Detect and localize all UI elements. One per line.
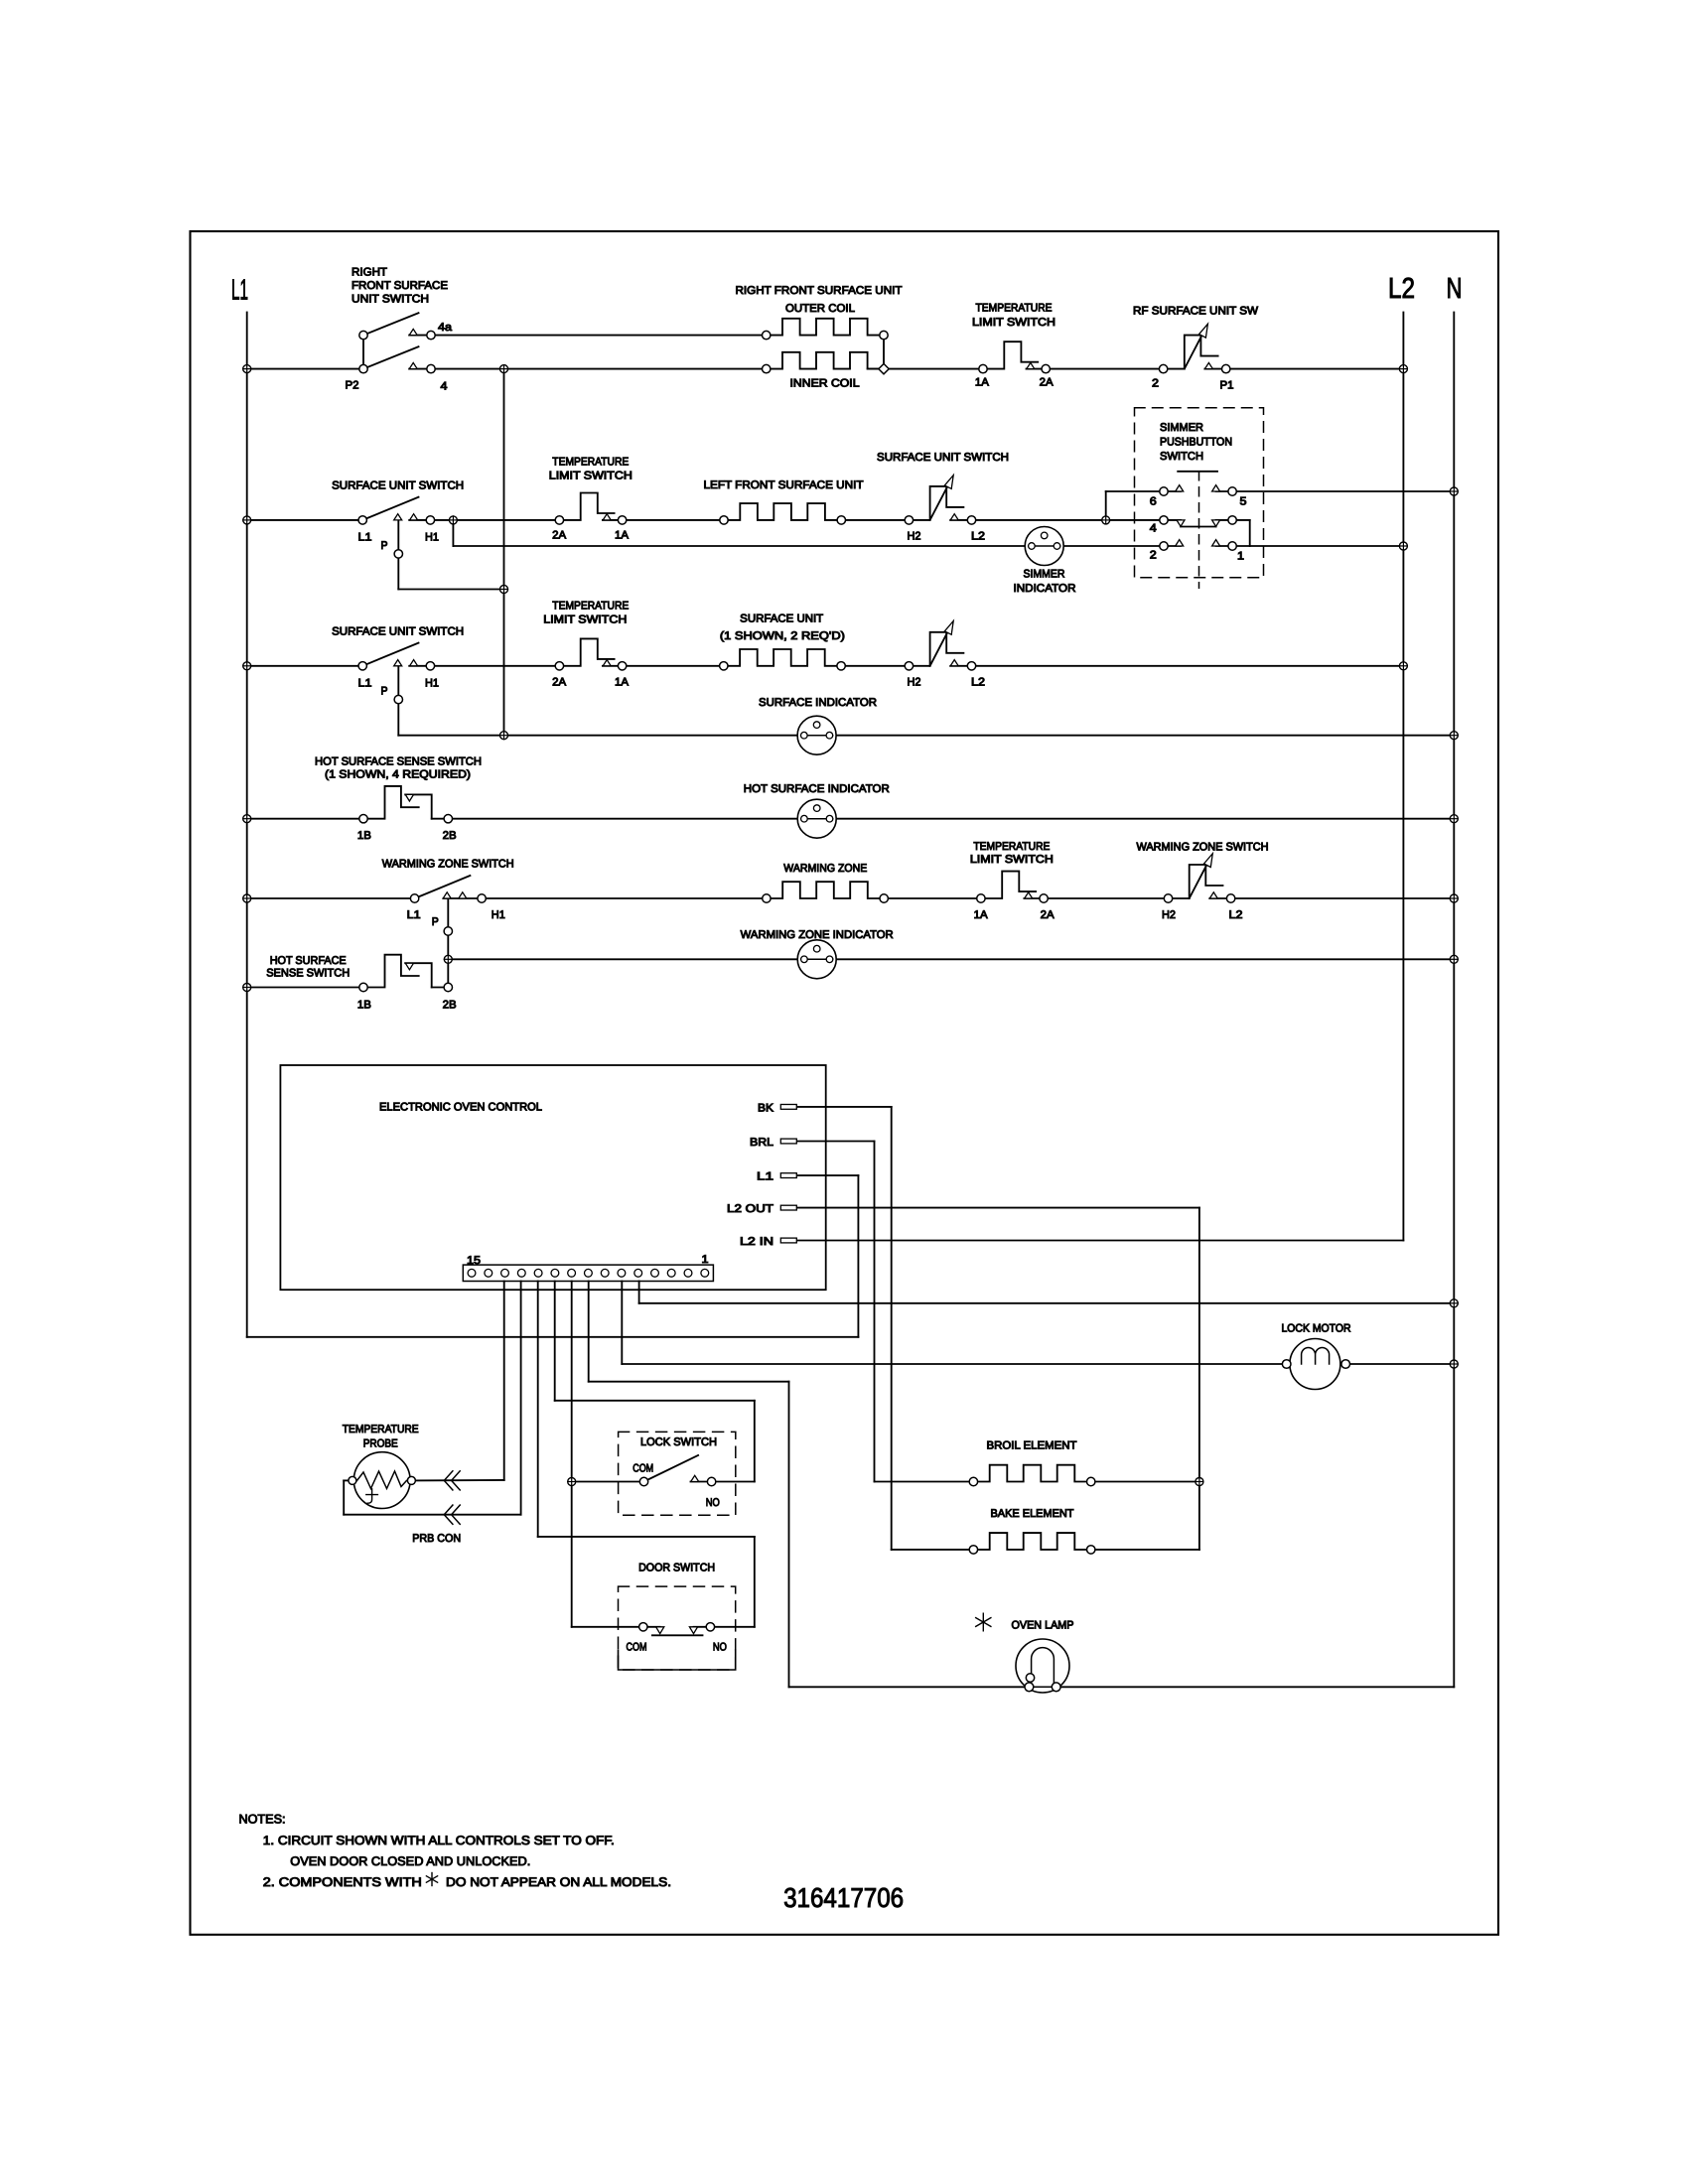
svg-text:P1: P1: [1220, 380, 1234, 392]
svg-text:1: 1: [702, 1254, 709, 1266]
svg-text:1A: 1A: [974, 909, 989, 921]
svg-text:H2: H2: [1162, 909, 1176, 921]
svg-text:L2 OUT: L2 OUT: [727, 1203, 774, 1215]
svg-text:BRL: BRL: [750, 1137, 774, 1149]
svg-text:NO: NO: [706, 1497, 720, 1509]
svg-text:LOCK SWITCH: LOCK SWITCH: [640, 1436, 717, 1448]
svg-text:LIMIT SWITCH: LIMIT SWITCH: [972, 317, 1055, 329]
svg-text:SURFACE UNIT: SURFACE UNIT: [740, 613, 823, 624]
svg-text:HOT SURFACE INDICATOR: HOT SURFACE INDICATOR: [744, 783, 890, 795]
svg-text:H2: H2: [908, 531, 921, 543]
svg-text:INNER COIL: INNER COIL: [790, 378, 860, 390]
svg-text:LEFT FRONT SURFACE UNIT: LEFT FRONT SURFACE UNIT: [704, 479, 864, 491]
svg-text:WARMING ZONE SWITCH: WARMING ZONE SWITCH: [1137, 841, 1269, 853]
svg-text:TEMPERATURE: TEMPERATURE: [976, 303, 1053, 315]
svg-text:HOT SURFACE: HOT SURFACE: [270, 955, 347, 967]
svg-text:4: 4: [441, 381, 448, 393]
svg-text:SIMMER: SIMMER: [1160, 422, 1203, 434]
svg-text:1A: 1A: [975, 377, 990, 389]
svg-text:SURFACE INDICATOR: SURFACE INDICATOR: [759, 697, 877, 709]
svg-text:1B: 1B: [357, 999, 371, 1011]
svg-text:H1: H1: [425, 677, 439, 689]
svg-text:L1: L1: [358, 677, 372, 689]
svg-text:RF SURFACE UNIT SW: RF SURFACE UNIT SW: [1133, 306, 1258, 318]
svg-text:4: 4: [1150, 523, 1157, 535]
svg-text:1A: 1A: [615, 530, 630, 542]
svg-text:L1: L1: [757, 1171, 774, 1183]
svg-text:15: 15: [467, 1255, 481, 1267]
svg-text:P2: P2: [346, 380, 359, 392]
svg-text:2: 2: [1152, 378, 1159, 390]
svg-text:6: 6: [1150, 495, 1157, 507]
svg-text:SURFACE UNIT SWITCH: SURFACE UNIT SWITCH: [877, 452, 1009, 464]
svg-text:P: P: [432, 916, 439, 928]
svg-text:SENSE SWITCH: SENSE SWITCH: [266, 968, 350, 980]
svg-text:RIGHT FRONT SURFACE UNIT: RIGHT FRONT SURFACE UNIT: [736, 285, 903, 297]
svg-text:PROBE: PROBE: [363, 1438, 398, 1450]
svg-text:P: P: [381, 540, 388, 552]
svg-text:PUSHBUTTON: PUSHBUTTON: [1160, 436, 1232, 448]
svg-text:OVEN LAMP: OVEN LAMP: [1012, 1620, 1074, 1632]
svg-text:H1: H1: [492, 909, 505, 921]
svg-text:L1: L1: [358, 532, 372, 544]
svg-text:WARMING ZONE: WARMING ZONE: [783, 863, 867, 875]
svg-text:DO NOT APPEAR ON ALL MODELS.: DO NOT APPEAR ON ALL MODELS.: [446, 1875, 671, 1889]
svg-text:L2: L2: [1388, 273, 1415, 305]
svg-text:316417706: 316417706: [783, 1882, 904, 1913]
svg-text:1. CIRCUIT SHOWN WITH ALL CON: 1. CIRCUIT SHOWN WITH ALL CONTROLS SET T…: [263, 1834, 615, 1847]
svg-text:OVEN DOOR CLOSED AND UNLOCKED.: OVEN DOOR CLOSED AND UNLOCKED.: [290, 1854, 530, 1868]
svg-text:SWITCH: SWITCH: [1160, 451, 1203, 463]
svg-text:LOCK MOTOR: LOCK MOTOR: [1282, 1323, 1351, 1335]
svg-text:DOOR SWITCH: DOOR SWITCH: [638, 1563, 715, 1574]
svg-text:2. COMPONENTS WITH: 2. COMPONENTS WITH: [263, 1875, 422, 1889]
svg-text:L2: L2: [971, 531, 985, 543]
svg-text:BK: BK: [758, 1103, 774, 1115]
svg-text:L2: L2: [1229, 909, 1243, 921]
svg-text:1: 1: [1237, 550, 1244, 562]
svg-text:H1: H1: [425, 532, 439, 544]
svg-text:INDICATOR: INDICATOR: [1014, 583, 1076, 595]
svg-text:SIMMER: SIMMER: [1024, 569, 1065, 581]
svg-text:2: 2: [1150, 549, 1157, 561]
svg-text:N: N: [1447, 273, 1463, 305]
svg-text:L2: L2: [971, 676, 985, 688]
svg-text:L2 IN: L2 IN: [740, 1236, 774, 1248]
svg-text:ELECTRONIC OVEN CONTROL: ELECTRONIC OVEN CONTROL: [379, 1101, 542, 1113]
svg-text:SURFACE UNIT SWITCH: SURFACE UNIT SWITCH: [332, 479, 464, 491]
svg-text:NOTES:: NOTES:: [239, 1813, 286, 1827]
svg-text:COM: COM: [633, 1462, 653, 1474]
svg-text:TEMPERATURE: TEMPERATURE: [552, 600, 629, 612]
svg-text:LIMIT SWITCH: LIMIT SWITCH: [543, 614, 627, 626]
svg-text:TEMPERATURE: TEMPERATURE: [343, 1424, 419, 1435]
svg-text:UNIT SWITCH: UNIT SWITCH: [352, 293, 429, 305]
svg-text:H2: H2: [908, 676, 921, 688]
svg-text:SURFACE UNIT SWITCH: SURFACE UNIT SWITCH: [332, 625, 464, 637]
svg-text:TEMPERATURE: TEMPERATURE: [973, 841, 1050, 853]
svg-text:BROIL ELEMENT: BROIL ELEMENT: [987, 1439, 1077, 1451]
svg-text:5: 5: [1240, 495, 1247, 507]
svg-text:4a: 4a: [438, 322, 453, 334]
svg-text:TEMPERATURE: TEMPERATURE: [552, 457, 629, 469]
svg-text:2A: 2A: [1040, 377, 1055, 389]
svg-text:(1 SHOWN, 2 REQ'D): (1 SHOWN, 2 REQ'D): [720, 630, 845, 642]
svg-text:NO: NO: [713, 1641, 727, 1653]
svg-text:L1: L1: [407, 909, 421, 921]
svg-text:HOT SURFACE SENSE SWITCH: HOT SURFACE SENSE SWITCH: [315, 755, 482, 767]
svg-text:PRB CON: PRB CON: [412, 1533, 461, 1545]
svg-text:BAKE ELEMENT: BAKE ELEMENT: [991, 1508, 1074, 1520]
svg-text:LIMIT SWITCH: LIMIT SWITCH: [549, 471, 633, 482]
svg-text:2B: 2B: [443, 999, 457, 1011]
svg-text:2A: 2A: [552, 676, 567, 688]
svg-text:L1: L1: [231, 275, 248, 307]
svg-text:1B: 1B: [357, 830, 371, 842]
svg-text:COM: COM: [627, 1641, 647, 1653]
svg-text:2A: 2A: [1041, 909, 1055, 921]
svg-text:WARMING ZONE SWITCH: WARMING ZONE SWITCH: [382, 859, 514, 871]
svg-text:WARMING ZONE INDICATOR: WARMING ZONE INDICATOR: [741, 929, 894, 941]
svg-text:2B: 2B: [443, 830, 457, 842]
svg-text:RIGHT: RIGHT: [352, 267, 387, 279]
svg-text:(1 SHOWN, 4 REQUIRED): (1 SHOWN, 4 REQUIRED): [325, 769, 471, 781]
svg-text:OUTER COIL: OUTER COIL: [785, 303, 855, 315]
svg-text:1A: 1A: [615, 676, 630, 688]
svg-text:FRONT SURFACE: FRONT SURFACE: [352, 280, 448, 292]
svg-text:2A: 2A: [552, 530, 567, 542]
svg-text:LIMIT SWITCH: LIMIT SWITCH: [970, 854, 1054, 866]
svg-text:P: P: [381, 686, 388, 698]
